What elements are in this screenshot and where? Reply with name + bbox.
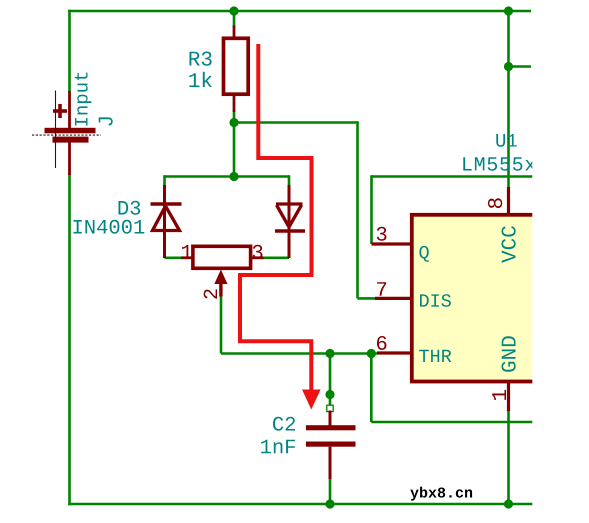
pin 6 stub bbox=[377, 351, 412, 354]
junction THR C2 bbox=[325, 349, 334, 358]
wire node1 down to diode bus bbox=[233, 123, 236, 177]
watermark ybx8.cn bbox=[410, 487, 472, 501]
junction THR right bbox=[367, 349, 376, 358]
battery plate short bbox=[53, 137, 89, 143]
pin 8 stub bbox=[507, 187, 510, 215]
wire right stub bbox=[509, 65, 532, 68]
wire lower horizontal right bbox=[371, 421, 532, 424]
label J bbox=[99, 117, 113, 125]
cursor crosshair vertical bbox=[55, 91, 57, 169]
pin 1 stub bbox=[507, 382, 510, 412]
junction node1 bbox=[229, 118, 238, 127]
cursor crosshair horizontal bbox=[32, 134, 101, 136]
pin number 6 bbox=[377, 336, 387, 350]
IC U1 LM555 body bbox=[412, 215, 550, 382]
potentiometer wiper pin 2 bbox=[214, 270, 227, 297]
label D3 bbox=[118, 201, 140, 215]
resistor R3 bbox=[224, 26, 249, 113]
label U1 bbox=[496, 134, 517, 147]
label IN4001 bbox=[74, 220, 145, 234]
wire bottom bus bbox=[68, 503, 533, 506]
battery pins bbox=[68, 91, 71, 175]
wire diode top bus bbox=[165, 175, 290, 178]
wire pot right stub bbox=[263, 256, 290, 259]
junction C2 branch bbox=[325, 390, 334, 399]
battery plus sign bbox=[53, 104, 67, 118]
potentiometer body bbox=[181, 246, 264, 268]
wire pot left stub bbox=[165, 256, 183, 259]
label 1nF bbox=[261, 440, 295, 454]
wire DIS column bbox=[356, 121, 359, 298]
diode right bbox=[275, 185, 305, 258]
pin number 1 bbox=[492, 390, 506, 400]
pin number 2 pot bbox=[204, 289, 217, 298]
label R3 bbox=[189, 52, 211, 66]
capacitor C2 bbox=[306, 411, 356, 480]
wire left diode drop bbox=[163, 175, 166, 186]
junction GND bottom bbox=[504, 499, 513, 508]
wire node1 to DIS column bbox=[234, 121, 358, 124]
pin name GND bbox=[502, 336, 516, 372]
pin number 3 pot bbox=[253, 245, 263, 259]
pin name Q bbox=[419, 246, 428, 262]
wire top bus bbox=[68, 10, 531, 13]
wire Q drop to pin 3 bbox=[370, 175, 373, 244]
wire C2 bottom drop bbox=[329, 478, 332, 505]
battery plate long bbox=[45, 128, 96, 134]
label LM555x bbox=[463, 157, 535, 170]
pin number 7 bbox=[377, 282, 386, 296]
pin 3 stub bbox=[372, 242, 412, 245]
wire right diode drop bbox=[288, 175, 291, 186]
wire GND pin1 drop bbox=[507, 411, 510, 506]
wire R3 bottom stub bbox=[233, 111, 236, 124]
pin number 3 bbox=[377, 227, 387, 241]
junction top right bbox=[504, 6, 513, 15]
wire DIS into pin 7 bbox=[358, 297, 376, 300]
wire THR horizontal bbox=[221, 352, 377, 355]
wire left bus lower bbox=[68, 174, 71, 505]
pin number 1 pot bbox=[182, 245, 192, 259]
junction top R3 bbox=[229, 6, 238, 15]
wire end square marker bbox=[327, 405, 333, 411]
pin number 8 bbox=[488, 198, 502, 208]
pin 7 stub bbox=[375, 297, 412, 300]
wire pot wiper down bbox=[220, 296, 223, 354]
wire C2 top drop bbox=[329, 354, 332, 407]
pin name DIS bbox=[420, 294, 451, 307]
diode D3 left bbox=[151, 185, 182, 258]
label 1k bbox=[189, 72, 212, 87]
wire right VCC drop bbox=[507, 10, 510, 187]
wire R3 top stub bbox=[233, 11, 236, 27]
wire left bus upper bbox=[68, 10, 71, 92]
wire Q output horizontal bbox=[372, 175, 533, 178]
whiteout mask right side bbox=[532, 0, 589, 523]
junction right stub bbox=[504, 62, 513, 71]
label Input bbox=[75, 73, 92, 126]
junction C2 bottom bbox=[325, 499, 334, 508]
pin name THR bbox=[419, 350, 451, 362]
junction diode bus bbox=[229, 172, 238, 181]
pin name VCC bbox=[502, 226, 516, 263]
wire THR node down bbox=[370, 354, 373, 423]
label C2 bbox=[273, 417, 295, 431]
highlighted current path red bbox=[240, 44, 321, 410]
